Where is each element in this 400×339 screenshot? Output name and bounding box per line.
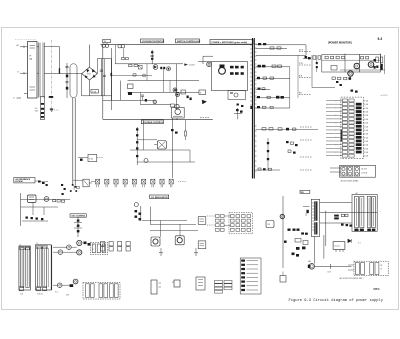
connector CN10 (strip) <box>240 258 261 294</box>
label box: SWITCH CONTROLLER <box>176 39 201 43</box>
svg-text:OSC CONTROL: OSC CONTROL <box>71 216 86 218</box>
resistor network RN31 <box>313 56 345 70</box>
resistor R23 <box>241 66 244 69</box>
capacitor C93 <box>341 224 352 227</box>
capacitor C12 <box>160 67 165 69</box>
wire (drop 140) <box>140 92 142 104</box>
transistor Q73 <box>77 240 82 245</box>
capacitor C6 <box>103 59 106 96</box>
secondary row 6 rectifier <box>256 96 291 99</box>
wire (dashed shield above filter) <box>15 39 36 41</box>
capacitor C51 <box>72 184 76 188</box>
label box: VOLTAGE THYRISTOR <box>141 39 165 43</box>
transistor Q32 <box>368 62 374 68</box>
svg-text:DC-DC: DC-DC <box>335 246 341 248</box>
fan motor M1 <box>308 260 315 269</box>
wire (row 64) <box>115 63 183 65</box>
secondary row 8 rectifier <box>256 128 319 131</box>
net label (mid right rows) <box>200 118 312 171</box>
LED indicators <box>84 242 91 246</box>
label box: OSC CONTROL <box>70 214 86 218</box>
power transistor Q22 <box>219 65 226 75</box>
monitor top parts <box>351 90 388 98</box>
wire (drop 176) <box>175 64 177 110</box>
wire (thyristor bus) <box>110 48 112 100</box>
connector CN1 (output header) <box>341 97 364 159</box>
transistor Q61 <box>134 203 138 207</box>
zener string D31 <box>316 55 318 72</box>
filter choke L8 <box>267 138 269 170</box>
diode D71 <box>70 284 74 287</box>
svg-text:POWER + SWITCHING (pulse width: POWER + SWITCHING (pulse width) <box>212 41 248 44</box>
capacitor C23 <box>250 106 253 109</box>
capacitor C62 <box>284 241 299 257</box>
capacitor C17 <box>187 96 192 101</box>
transistor Q21 <box>207 62 212 67</box>
controller box outline <box>211 62 247 91</box>
wire (row 100) <box>103 99 156 101</box>
resistor R51 cluster <box>35 181 48 187</box>
svg-text:[POWER MONITOR]: [POWER MONITOR] <box>328 41 352 44</box>
wire (secondary bus right) <box>290 45 306 108</box>
connector CN1 pin labels <box>363 100 368 158</box>
regulator box U2 <box>172 108 185 119</box>
svg-text:115V: 115V <box>328 271 331 273</box>
wire (row 92) <box>128 91 200 93</box>
capacitor C91 <box>303 207 310 217</box>
resistor R54 <box>62 200 65 202</box>
node E (ground lead) <box>14 98 22 100</box>
wire (dc bus) <box>111 59 113 110</box>
wire (top rail) <box>100 44 252 46</box>
transistor Q71 <box>58 250 63 255</box>
capacitor C32 <box>381 64 383 70</box>
secondary row 3 rectifier <box>256 65 291 68</box>
transistor Q31 <box>354 63 360 69</box>
resistor R26 <box>241 72 244 75</box>
surge shield box <box>70 64 77 98</box>
plug P1 <box>102 44 109 47</box>
wire (inverter rails) <box>315 202 377 263</box>
resistor R11 <box>129 65 133 67</box>
transistor Q62 <box>280 214 284 218</box>
wire (drive rows) <box>53 247 77 252</box>
svg-text:0 115: 0 115 <box>20 294 23 296</box>
svg-text:9-3: 9-3 <box>378 37 383 41</box>
wire (row 80) <box>128 80 200 82</box>
svg-text:r1 r2: r1 r2 <box>55 292 58 294</box>
resistor R33 <box>361 57 369 59</box>
page number 9-3 <box>378 37 383 41</box>
text (block notes) <box>55 292 69 297</box>
pot VR61 <box>266 221 274 228</box>
secondary row 5 rectifier <box>256 88 271 90</box>
resistor R12 <box>134 65 138 67</box>
transistor Q75 <box>57 283 62 288</box>
capacitor C82 (can) <box>172 280 180 287</box>
wire (plug drop) <box>122 49 129 60</box>
capacitor C21 <box>237 104 239 106</box>
connector TA1 <box>103 40 111 43</box>
ground (dcreg 1) <box>159 248 163 256</box>
resistor array RA61 <box>207 213 253 234</box>
wire (col 163) <box>163 69 165 92</box>
bridge rectifier D1 <box>82 45 98 96</box>
wire (mid rail) <box>103 118 213 120</box>
resistor R24 <box>230 72 234 75</box>
thyristor Q11 <box>153 65 158 70</box>
resistor R91 <box>334 215 339 220</box>
svg-text:RST: RST <box>299 93 302 95</box>
capacitor C52 cluster <box>70 186 79 192</box>
relay RY1 <box>73 179 92 187</box>
svg-text:SWITCH CONTROLLER: SWITCH CONTROLLER <box>177 41 201 43</box>
label box: DC REGULATOR <box>150 195 169 199</box>
capacitor bank C8 <box>286 141 298 154</box>
svg-text:VOLTAGE THYRISTOR: VOLTAGE THYRISTOR <box>142 40 165 43</box>
diode D11 <box>138 65 142 69</box>
diode D21 <box>202 100 207 104</box>
transistor Q12 <box>167 67 171 71</box>
transformer T1 secondary winding <box>43 43 82 98</box>
wire (dcreg rails) <box>142 207 198 238</box>
IC U63 <box>198 217 206 225</box>
wire (left bus pair) <box>73 98 75 186</box>
wire (ctl drop) <box>173 118 178 178</box>
svg-text:115V: 115V <box>66 295 69 297</box>
solder blob <box>49 96 53 98</box>
svg-text:VOLTAGE: VOLTAGE <box>15 180 24 183</box>
snubber box <box>228 91 246 100</box>
wire (AC to bridge) <box>59 47 60 74</box>
svg-text:NEC: NEC <box>373 287 380 291</box>
resistor R25 <box>235 72 239 75</box>
label: POWER MONITOR <box>328 41 352 44</box>
net +B flag <box>185 64 196 67</box>
resistor R62 <box>288 229 300 231</box>
svg-text:P ON: P ON <box>299 63 303 65</box>
wire (bridge dc out) <box>82 59 112 96</box>
diode string D51 <box>22 217 48 222</box>
capacitor C5 <box>100 59 103 96</box>
label box: REFERENCE VOLTAGE <box>14 178 35 184</box>
caption <box>289 298 384 303</box>
resistor row R35 <box>332 77 351 86</box>
capacitor C22 <box>241 105 243 107</box>
wire (ctl rows) <box>130 120 195 162</box>
transformer T2 lower ticks <box>255 126 257 171</box>
transistor Q74 <box>77 250 82 255</box>
wire (ctl top) <box>198 56 213 64</box>
wire (reg rails) <box>21 193 71 226</box>
node AC1 (line input) <box>17 44 25 48</box>
resistor R92 <box>341 214 348 216</box>
connector CN1 wires <box>326 100 342 155</box>
wire (drop 120) <box>120 81 122 101</box>
wire (col 147) <box>146 64 148 81</box>
connector CN7 <box>90 242 107 254</box>
transformer T4 (bars left) <box>19 244 31 290</box>
transistor Q51 <box>44 197 49 202</box>
wire (bottom drive row) <box>53 284 70 286</box>
fuse F1 <box>91 90 98 94</box>
capacitor C31 <box>374 59 376 69</box>
capacitor C1 string <box>66 63 69 98</box>
svg-text:T4: T4 <box>20 244 22 246</box>
top small boxes (inverter aux) <box>295 239 308 250</box>
optocoupler U62 <box>175 236 184 245</box>
ground lug <box>50 109 59 112</box>
resistor R52 <box>53 200 56 202</box>
relay K1 <box>340 165 376 177</box>
net label row D <box>299 93 311 95</box>
wire (monitor rails) <box>322 54 385 73</box>
capacitor C53 <box>61 184 66 195</box>
svg-text:T5: T5 <box>36 243 38 245</box>
DC-DC converter U91 <box>333 242 345 252</box>
label box: POWER SWITCHING <box>210 40 253 45</box>
capacitor C41 cluster <box>234 108 243 119</box>
capacitor C83 <box>280 272 286 283</box>
svg-text:+B 115V: +B 115V <box>189 64 196 66</box>
capacitor C92 <box>301 232 308 234</box>
resistor R53 <box>57 200 60 202</box>
transformer T2 primary ticks <box>250 45 252 105</box>
maker logo <box>373 287 380 291</box>
svg-text:250: 250 <box>35 108 38 110</box>
oscillator chain <box>74 217 82 237</box>
transformer T5 (bars right) <box>35 243 52 290</box>
transistor Q41 <box>144 159 148 163</box>
transistor Q76 <box>73 279 78 284</box>
secondary row 2 rectifier <box>256 47 288 49</box>
IC U64 <box>198 241 206 249</box>
resistor R27 <box>199 90 206 95</box>
fuse F2 <box>78 155 103 162</box>
ground (dcreg 2) <box>194 248 198 256</box>
diode D91 <box>348 239 361 243</box>
wire (row 75) <box>111 74 152 77</box>
diode chain DA1 <box>91 179 186 187</box>
capacitor C81 (can) <box>151 280 161 294</box>
connector CN9 <box>196 277 205 290</box>
transformer T2 secondary ticks <box>255 44 257 108</box>
transformer T2 core <box>252 38 255 179</box>
svg-text:IN: IN <box>381 269 382 271</box>
monitor input knot <box>303 56 311 59</box>
capacitor C15 <box>141 95 147 102</box>
diode cluster D61 <box>135 206 142 221</box>
svg-text:DC REGULATOR: DC REGULATOR <box>151 196 168 199</box>
relay K1 wires <box>330 168 341 172</box>
wire (left bus down) <box>102 45 104 120</box>
plug P2 <box>118 45 125 48</box>
transistor Q33 <box>348 71 353 76</box>
transistor Q17 <box>176 93 180 97</box>
wire (col 170) <box>169 81 171 93</box>
transistor Q16 <box>173 88 177 92</box>
transistor Q15 <box>153 100 157 104</box>
svg-text:VOLTAGE CONTROL: VOLTAGE CONTROL <box>143 121 164 124</box>
monitor outline <box>322 55 381 73</box>
resistor R21 <box>230 66 234 69</box>
wire (right drop) <box>282 196 284 268</box>
net label row B <box>299 63 311 65</box>
secondary row 1 rectifier <box>256 43 307 45</box>
wire (rail drop 115) <box>115 45 117 64</box>
wire (row 104) <box>140 103 171 105</box>
transistor Q18 <box>171 104 180 109</box>
wire (secondary return) <box>256 54 306 56</box>
op-amp U51 <box>28 195 37 203</box>
zener string D41 <box>136 127 138 165</box>
resistor R22 <box>235 66 239 69</box>
terminal boxes (block bottom) <box>19 287 46 296</box>
line filter LF1 <box>24 42 37 99</box>
connector CN8 <box>83 283 120 300</box>
secondary row 7 rectifier <box>256 106 291 108</box>
wire (monitor drop) <box>312 55 335 88</box>
svg-text:0 115 230: 0 115 230 <box>37 294 43 296</box>
resistor R41 <box>185 120 187 140</box>
transformer T1 primary winding <box>37 43 40 98</box>
relay note text <box>340 180 358 183</box>
net label row A <box>299 48 311 51</box>
label box: VOLTAGE CONTROL <box>141 120 164 124</box>
svg-text:S5VB: S5VB <box>87 74 91 76</box>
transistor Q72 <box>67 245 72 250</box>
svg-text:LF2: LF2 <box>355 193 358 195</box>
secondary row 4 rectifier <box>256 77 291 79</box>
label boxes (volt select) <box>215 281 233 294</box>
svg-text:Figure 9-3 Circuit diagram of: Figure 9-3 Circuit diagram of power supp… <box>289 298 384 303</box>
terminal strip TB1 <box>35 97 45 120</box>
wire (fan feed) <box>315 264 352 273</box>
diode chain DA2 <box>92 242 130 252</box>
diode D10 <box>111 73 113 76</box>
svg-text:+5 +12 -12: +5 +12 -12 <box>381 95 388 97</box>
capacitor C33 <box>376 55 385 74</box>
capacitor C10 <box>150 50 154 64</box>
net label row C <box>299 75 311 78</box>
connector CN11 <box>339 261 388 280</box>
resistor R17 <box>181 90 186 94</box>
node B (line input) <box>18 72 25 75</box>
transformer T3 <box>311 199 319 236</box>
label box: DC INVERTER <box>300 190 310 194</box>
shield (dash-dot) <box>51 40 53 112</box>
capacitor C42 <box>171 129 178 134</box>
pot VR41 <box>154 141 166 150</box>
optocoupler U61 <box>151 237 160 246</box>
secondary row 9 rectifier <box>256 168 281 170</box>
resistor R15 <box>128 84 134 95</box>
line filter block (AC out) <box>352 193 381 231</box>
